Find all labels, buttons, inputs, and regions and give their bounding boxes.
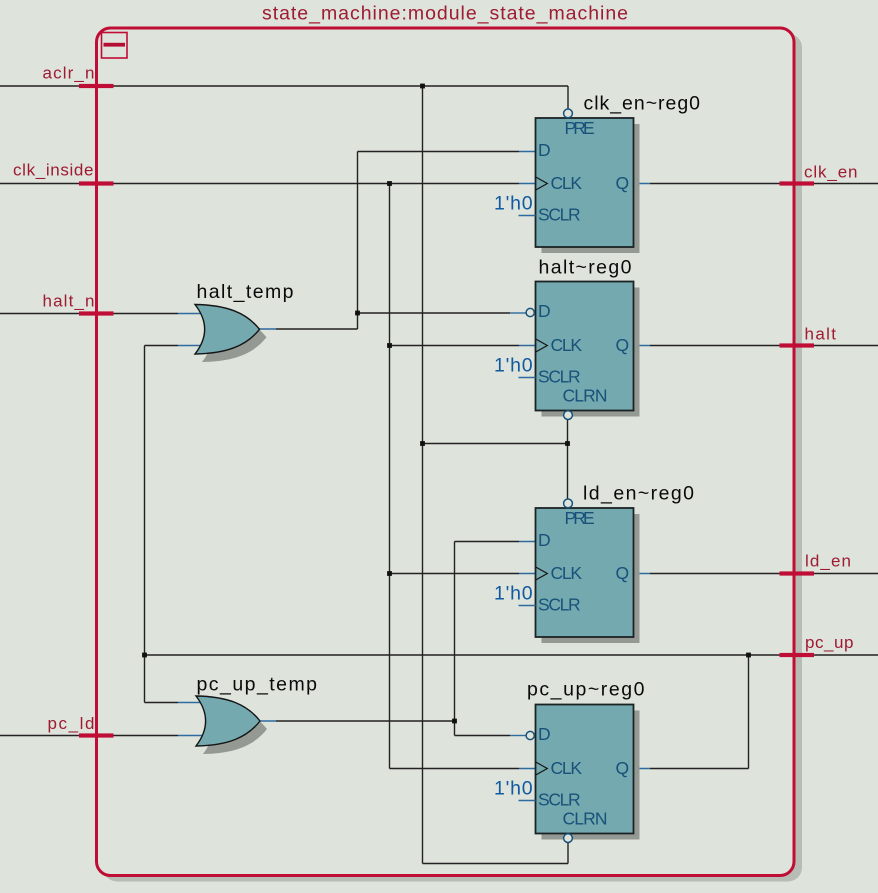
svg-text:halt~reg0: halt~reg0 — [539, 257, 632, 279]
svg-text:pc_ld: pc_ld — [48, 714, 95, 733]
wire clk branch to halt~reg0 CLK — [390, 345, 520, 347]
U4 pc_up~reg0 CLRN bubble (clear, active low) — [564, 834, 573, 843]
svg-text:halt: halt — [805, 325, 837, 344]
svg-text:PRE: PRE — [565, 118, 595, 138]
wire net ld_en from Q — [634, 573, 651, 575]
svg-text:1'h0: 1'h0 — [494, 193, 533, 215]
svg-text:Q: Q — [616, 758, 630, 778]
wire aclr_n main vertical x=422.5 — [422, 86, 424, 864]
svg-text:clk_en: clk_en — [804, 163, 858, 182]
collapse icon — [102, 33, 128, 59]
input port clk_inside — [13, 161, 114, 186]
svg-text:1'h0: 1'h0 — [494, 355, 533, 377]
U2 halt~reg0 D input bubble (inverted) — [526, 308, 534, 316]
module state_machine:module_state_machine boundary (shadow) — [103, 34, 802, 882]
U2 halt~reg0 clock triangle — [536, 339, 548, 352]
OR gate pc_up_temp — [196, 696, 260, 746]
svg-text:halt_n: halt_n — [43, 292, 95, 311]
svg-text:CLK: CLK — [551, 173, 583, 193]
svg-text:clk_inside: clk_inside — [13, 161, 94, 180]
output port pc_up — [780, 633, 854, 657]
svg-text:state_machine:module_state_mac: state_machine:module_state_machine — [262, 3, 628, 25]
U1 clk_en~reg0 clock triangle — [536, 177, 548, 190]
wire net halt_n into halt_temp top input — [0, 313, 178, 315]
svg-text:halt_temp: halt_temp — [197, 281, 294, 303]
input port aclr_n — [43, 64, 114, 89]
OR gate halt_temp — [195, 305, 260, 355]
flip-flop U4 pc_up~reg0 body — [536, 705, 634, 834]
output port clk_en — [780, 163, 858, 186]
U1 clk_en~reg0 SCLR stub — [519, 215, 536, 217]
junction clk to halt~reg0 — [387, 343, 392, 348]
U3 ld_en~reg0 clock triangle — [536, 567, 548, 580]
output port ld_en — [780, 552, 852, 576]
wire aclr_n branch to CLRN/PRE column y=443.5 — [423, 443, 568, 445]
svg-text:CLK: CLK — [551, 563, 583, 583]
svg-text:SCLR: SCLR — [538, 789, 581, 809]
wire pc_up_temp output stub — [260, 720, 277, 722]
wire halt_temp output horizontal — [276, 328, 358, 330]
wire net pc_up from Q — [634, 768, 651, 770]
wire halt_temp output to halt~reg0 D — [358, 312, 511, 314]
U4 pc_up~reg0 D input bubble (inverted) — [526, 731, 534, 739]
svg-text:pc_up_temp: pc_up_temp — [197, 674, 318, 696]
OR gate pc_up_temp (shadow) — [203, 704, 267, 754]
wire pc_up_temp output to ld_en~reg0 D — [455, 541, 520, 543]
wire net clk_inside horizontal into clk_en~reg0 CLK — [0, 183, 519, 185]
wire clk branch to ld_en~reg0 CLK — [390, 573, 520, 575]
svg-text:1'h0: 1'h0 — [494, 583, 533, 605]
U3 ld_en~reg0 SCLR stub — [519, 605, 536, 607]
output port halt — [780, 325, 837, 348]
svg-text:D: D — [538, 301, 551, 321]
wire aclr_n bottom run y=863.5 — [423, 863, 569, 865]
junction pc_up_temp out tee — [452, 719, 457, 724]
U2 halt~reg0 CLRN bubble (clear, active low) — [564, 411, 573, 420]
wire pc_up_temp output vertical x=454.5 — [454, 542, 456, 736]
svg-text:SCLR: SCLR — [538, 366, 581, 386]
wire halt_temp output to clk_en~reg0 D — [358, 151, 520, 153]
svg-text:PRE: PRE — [565, 508, 595, 528]
flip-flop U3 ld_en~reg0 body — [536, 508, 634, 637]
wire aclr_n up to CLRN bubble of pc_up~reg0 — [567, 842, 569, 863]
wire clk branch to pc_up~reg0 CLK — [390, 768, 520, 770]
svg-text:pc_up: pc_up — [805, 633, 854, 652]
svg-text:clk_en~reg0: clk_en~reg0 — [584, 93, 701, 115]
flip-flop U2 halt~reg0 body — [536, 282, 634, 411]
wire net aclr_n horizontal from input to x=568 — [0, 85, 568, 87]
OR gate halt_temp (shadow) — [202, 313, 267, 363]
svg-text:D: D — [538, 724, 551, 744]
flip-flop U1 clk_en~reg0 body — [536, 118, 634, 247]
wire halt_temp output vertical x=357.5 — [357, 152, 359, 330]
wire aclr_n drop to PRE bubble of clk_en~reg0 — [567, 86, 569, 109]
U4 pc_up~reg0 clock triangle — [536, 762, 548, 775]
U2 halt~reg0 SCLR stub — [519, 377, 536, 379]
wire net halt from Q — [634, 345, 651, 347]
svg-text:SCLR: SCLR — [538, 204, 581, 224]
junction halt_temp out tee — [355, 311, 360, 316]
junction aclr_n CLRN/PRE tee — [565, 441, 570, 446]
svg-text:ld_en: ld_en — [805, 552, 851, 571]
svg-text:1'h0: 1'h0 — [494, 778, 533, 800]
wire aclr_n down to PRE bubble of ld_en~reg0 — [567, 444, 569, 500]
flip-flop U1 clk_en~reg0 (shadow) — [542, 124, 640, 253]
svg-text:CLK: CLK — [551, 335, 583, 355]
wire pc_up feedback vertical x=144.5 — [144, 346, 146, 703]
svg-text:CLRN: CLRN — [563, 386, 608, 406]
wire pc_up feedback to halt_temp bottom input — [145, 345, 179, 347]
wire pc_up_temp output to pc_up~reg0 D — [455, 735, 511, 737]
U4 pc_up~reg0 SCLR stub — [519, 800, 536, 802]
flip-flop U3 ld_en~reg0 (shadow) — [542, 514, 640, 643]
svg-text:pc_up~reg0: pc_up~reg0 — [527, 679, 645, 701]
svg-text:D: D — [538, 530, 551, 550]
junction pc_up feedback tee — [142, 653, 147, 658]
svg-text:D: D — [538, 140, 551, 160]
wire pc_up_temp output horizontal — [276, 720, 455, 722]
junction clk to ld_en~reg0 — [387, 571, 392, 576]
svg-text:CLRN: CLRN — [563, 809, 608, 829]
svg-text:SCLR: SCLR — [538, 594, 581, 614]
flip-flop U4 pc_up~reg0 (shadow) — [542, 711, 640, 840]
input port pc_ld — [48, 714, 114, 738]
wire halt_temp output stub — [259, 328, 276, 330]
wire net clk_en from Q — [634, 183, 651, 185]
U3 ld_en~reg0 PRE bubble (preset, active low) — [564, 499, 573, 508]
svg-text:Q: Q — [616, 563, 630, 583]
wire pc_up feedback horizontal y=655 — [145, 654, 749, 656]
svg-text:Q: Q — [616, 173, 630, 193]
wire net pc_ld into pc_up_temp bottom input — [0, 735, 178, 737]
junction pc_up out tee — [746, 653, 751, 658]
wire clk vertical x=389.5 — [389, 184, 391, 769]
wire pc_up feedback to pc_up_temp top input — [145, 702, 179, 704]
U1 clk_en~reg0 PRE bubble (preset, active low) — [564, 109, 573, 118]
wire pc_up vertical up to output row — [748, 655, 750, 769]
svg-text:CLK: CLK — [551, 758, 583, 778]
junction clk split — [387, 181, 392, 186]
junction aclr_n mid branch — [420, 441, 425, 446]
module state_machine:module_state_machine boundary — [97, 28, 795, 876]
svg-text:aclr_n: aclr_n — [43, 64, 95, 83]
wire aclr_n up to CLRN bubble of halt~reg0 — [567, 419, 569, 443]
input port halt_n — [43, 292, 114, 316]
svg-text:Q: Q — [616, 335, 630, 355]
flip-flop U2 halt~reg0 (shadow) — [542, 288, 640, 417]
wire pc_up to output port — [749, 654, 878, 656]
junction aclr_n split — [420, 84, 425, 89]
